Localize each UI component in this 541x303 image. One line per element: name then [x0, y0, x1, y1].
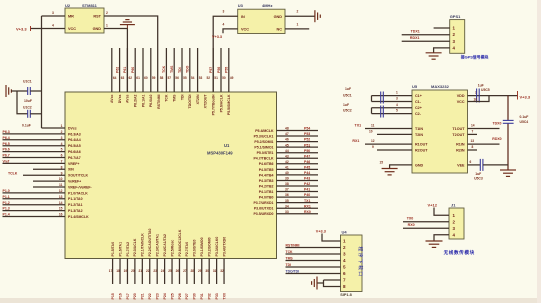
svg-text:5: 5 [396, 109, 398, 113]
svg-text:40: 40 [285, 171, 289, 175]
svg-text:P3.4/UTXD0: P3.4/UTXD0 [222, 237, 226, 257]
svg-text:XT2OUT: XT2OUT [204, 94, 208, 109]
svg-text:RX0: RX0 [408, 223, 415, 227]
svg-text:4: 4 [396, 103, 398, 107]
svg-text:34: 34 [285, 204, 289, 208]
svg-text:33: 33 [285, 210, 289, 214]
svg-text:P2.7/TA0: P2.7/TA0 [185, 242, 189, 257]
U5 pin 1 (C1+) wire [372, 95, 413, 97]
svg-text:P42: P42 [304, 182, 310, 186]
svg-text:R2IN: R2IN [456, 148, 465, 152]
svg-text:RX1: RX1 [304, 204, 311, 208]
svg-text:U5C5: U5C5 [481, 88, 490, 92]
svg-text:R2OUT: R2OUT [415, 148, 428, 152]
svg-text:P45: P45 [304, 165, 310, 169]
svg-text:11: 11 [371, 124, 375, 128]
svg-text:P3.1/SIMO0: P3.1/SIMO0 [200, 237, 204, 256]
svg-text:5: 5 [343, 265, 346, 270]
net TX1 wire to U5 T1IN [365, 128, 412, 130]
svg-text:2: 2 [297, 10, 299, 14]
svg-text:U1C2: U1C2 [23, 106, 32, 110]
svg-text:RST/NMI: RST/NMI [157, 94, 161, 108]
svg-text:P5.0/STE1: P5.0/STE1 [257, 151, 274, 155]
svg-text:DVcc: DVcc [68, 126, 77, 130]
svg-text:47: 47 [285, 132, 289, 136]
U5 pin 2 (VDD) wire to V+3.3 [468, 95, 518, 97]
svg-text:P1.1/TA0: P1.1/TA0 [68, 197, 83, 201]
svg-text:P1.4: P1.4 [3, 213, 10, 217]
svg-text:4: 4 [223, 22, 225, 26]
U3 pin 2 (GND) wire [285, 15, 315, 17]
svg-text:49: 49 [230, 76, 234, 80]
svg-text:P43: P43 [304, 177, 310, 181]
wire ground to cap U1C1 [11, 90, 27, 92]
svg-text:P2.0/ACLK: P2.0/ACLK [133, 238, 137, 256]
svg-text:P6.5: P6.5 [3, 142, 10, 146]
svg-text:P6.5/A5: P6.5/A5 [68, 144, 81, 148]
svg-text:RDX0: RDX0 [492, 137, 501, 141]
U5 pin 6 (VEE) wire [468, 164, 481, 166]
svg-text:6: 6 [61, 154, 63, 158]
GPS1 pin 1 wire [434, 27, 450, 29]
svg-text:RDX1: RDX1 [410, 36, 420, 40]
svg-text:TDX1: TDX1 [411, 30, 420, 34]
svg-text:61: 61 [136, 76, 140, 80]
ground above U2 GND wire [120, 20, 135, 25]
svg-text:C1+: C1+ [415, 94, 422, 98]
svg-text:62: 62 [129, 76, 133, 80]
svg-text:42: 42 [285, 160, 289, 164]
svg-text:9: 9 [61, 171, 63, 175]
svg-text:16: 16 [59, 213, 63, 217]
svg-text:P50: P50 [304, 149, 310, 153]
U4 pin 1 wire [322, 234, 341, 242]
svg-text:1uF: 1uF [478, 83, 484, 87]
svg-text:C2-: C2- [415, 112, 422, 116]
svg-text:27: 27 [183, 269, 187, 273]
J1 pin 1 wire [434, 208, 449, 216]
connector U4 (JTAG download) [341, 235, 363, 292]
svg-text:TX0: TX0 [222, 293, 226, 299]
svg-text:16: 16 [474, 97, 478, 101]
svg-text:44: 44 [285, 149, 289, 153]
U2 pin 1 (GND) wire [104, 29, 127, 93]
ground below U5 GND [382, 169, 398, 175]
svg-text:15: 15 [380, 160, 384, 164]
connector J1 (wireless) [449, 208, 464, 239]
svg-text:63: 63 [121, 76, 125, 80]
svg-text:4MHz: 4MHz [262, 3, 272, 8]
capacitor U1C2 0.1uF [28, 110, 31, 118]
svg-text:TDO/TDI: TDO/TDI [188, 94, 192, 108]
svg-text:7: 7 [61, 160, 63, 164]
svg-text:7: 7 [343, 278, 346, 283]
svg-text:23: 23 [153, 269, 157, 273]
bracket C1+ to C1- [371, 96, 373, 102]
wire down to cap U1C2 [17, 91, 28, 114]
svg-text:V+3.3: V+3.3 [212, 35, 222, 39]
svg-text:25: 25 [168, 269, 172, 273]
svg-text:60: 60 [144, 76, 148, 80]
svg-text:4: 4 [343, 258, 346, 263]
svg-text:P1.3/TA2: P1.3/TA2 [68, 209, 83, 213]
microcontroller U1 MSP430F149 [65, 92, 277, 259]
svg-text:P2.1/TAINCLK: P2.1/TAINCLK [141, 233, 145, 257]
J1 pin 4 wire [434, 235, 449, 241]
svg-text:P3.5/URXD0: P3.5/URXD0 [253, 212, 273, 216]
svg-text:8: 8 [472, 145, 474, 149]
svg-text:P25: P25 [170, 293, 174, 299]
U5 pin 9 (R2OUT) stub [377, 149, 412, 151]
capacitor U5C2 1uF plates [381, 106, 384, 118]
svg-text:C1-: C1- [415, 100, 422, 104]
U2 pin 2 (RST) wire to U1 RST/NMI [104, 16, 158, 92]
svg-text:0.1uF: 0.1uF [22, 124, 31, 128]
power V+3.3 right [517, 91, 519, 100]
svg-text:P6.6: P6.6 [3, 148, 10, 152]
svg-text:P16: P16 [118, 293, 122, 299]
ground right of U3 [315, 10, 320, 22]
svg-text:26: 26 [176, 269, 180, 273]
svg-text:U3: U3 [238, 3, 244, 8]
svg-text:TDX0: TDX0 [493, 122, 502, 126]
svg-text:59: 59 [152, 76, 156, 80]
svg-text:6: 6 [470, 160, 472, 164]
svg-text:P6.0/A0: P6.0/A0 [149, 94, 153, 107]
net TX0 wire to J1 pin 2 [403, 221, 449, 223]
svg-text:V+3.3: V+3.3 [316, 229, 326, 233]
svg-text:P6.3: P6.3 [3, 130, 10, 134]
svg-text:51: 51 [214, 76, 218, 80]
svg-text:TMS: TMS [286, 256, 294, 260]
net RST/NMI wire to U4 pin 2 [286, 247, 341, 249]
svg-text:4: 4 [52, 24, 54, 28]
U5 pin 13 (R1IN) wire net RDX0 [468, 143, 500, 145]
svg-text:TX1: TX1 [304, 199, 310, 203]
svg-text:P4.7/TBCLK: P4.7/TBCLK [253, 157, 274, 161]
svg-text:GND: GND [415, 163, 424, 167]
svg-text:P32: P32 [207, 293, 211, 299]
svg-text:45: 45 [285, 143, 289, 147]
svg-text:U4: U4 [342, 229, 348, 234]
net TDI wire to U4 pin 5 [286, 266, 341, 268]
svg-text:U5C2: U5C2 [343, 108, 352, 112]
svg-text:P20: P20 [133, 293, 137, 299]
svg-text:P1.0/TACLK: P1.0/TACLK [68, 191, 88, 195]
svg-text:R1IN: R1IN [456, 143, 465, 147]
V+3.3 rail to DVcc [41, 16, 43, 128]
svg-text:MR: MR [68, 15, 74, 19]
svg-text:AVss: AVss [126, 94, 130, 103]
U5 pin 3 (C1-) wire [372, 101, 413, 103]
svg-text:P23: P23 [155, 293, 159, 299]
svg-text:P1.2/TA1: P1.2/TA1 [68, 203, 83, 207]
svg-text:9: 9 [372, 145, 374, 149]
svg-text:P1.2: P1.2 [3, 201, 10, 205]
svg-text:3: 3 [52, 11, 54, 15]
svg-text:V+3.3: V+3.3 [16, 26, 27, 31]
svg-text:Vref: Vref [3, 160, 10, 164]
svg-text:U2: U2 [65, 3, 71, 8]
svg-text:U1: U1 [224, 143, 230, 148]
GPS1 pin 4 wire [434, 48, 450, 53]
svg-text:P5.4/MCLK: P5.4/MCLK [255, 129, 274, 133]
svg-text:GPS1: GPS1 [450, 14, 461, 19]
svg-text:P52: P52 [304, 138, 310, 142]
net TDO/TDI wire to U4 pin 6 [286, 273, 341, 275]
svg-text:P3.2/SOMI0: P3.2/SOMI0 [207, 237, 211, 256]
svg-text:30: 30 [205, 269, 209, 273]
svg-text:35: 35 [285, 199, 289, 203]
svg-text:P3.6/UTXD1: P3.6/UTXD1 [254, 207, 274, 211]
svg-text:58: 58 [160, 76, 164, 80]
svg-text:P6.6/A6: P6.6/A6 [68, 150, 81, 154]
svg-text:3: 3 [223, 10, 225, 14]
svg-text:P4.4/TB4: P4.4/TB4 [259, 173, 274, 177]
connector GPS1 [450, 20, 465, 54]
svg-text:P33: P33 [215, 293, 219, 299]
svg-text:C2+: C2+ [415, 106, 422, 110]
svg-text:V+12: V+12 [428, 203, 438, 208]
svg-text:IN: IN [241, 15, 245, 19]
svg-text:21: 21 [139, 269, 143, 273]
svg-text:32: 32 [220, 269, 224, 273]
U4 pin 7 wire [324, 279, 341, 281]
svg-text:TX1: TX1 [355, 124, 362, 128]
svg-text:P27: P27 [185, 293, 189, 299]
svg-text:1: 1 [297, 22, 299, 26]
svg-text:AVcc: AVcc [110, 94, 114, 103]
svg-text:TMS: TMS [173, 94, 177, 102]
net RX1 wire to U5 R1OUT [365, 143, 412, 145]
svg-text:P4.1/TB1: P4.1/TB1 [259, 190, 274, 194]
U5 pin 5 (C2-) wire [372, 113, 413, 115]
svg-text:P6.1/A1: P6.1/A1 [141, 94, 145, 107]
net TMS wire to U4 pin 4 [286, 260, 341, 262]
svg-text:P6.2/A2: P6.2/A2 [134, 94, 138, 107]
wire cap U5C3 to rail [483, 164, 508, 166]
svg-text:P1.4/SMCLK: P1.4/SMCLK [68, 215, 89, 219]
svg-text:RST/NMI: RST/NMI [286, 243, 300, 247]
svg-text:P46: P46 [304, 160, 310, 164]
svg-text:1: 1 [61, 124, 63, 128]
svg-text:U5C1: U5C1 [343, 93, 352, 97]
svg-text:P4.2/TB2: P4.2/TB2 [259, 184, 274, 188]
svg-text:12: 12 [371, 139, 375, 143]
svg-text:P3.3/UCLK0: P3.3/UCLK0 [215, 237, 219, 257]
svg-text:1uF: 1uF [345, 87, 351, 91]
svg-text:P1.1: P1.1 [3, 195, 10, 199]
svg-text:56: 56 [175, 76, 179, 80]
svg-text:T1OUT: T1OUT [452, 127, 465, 131]
svg-text:P6.4/A4: P6.4/A4 [68, 138, 81, 142]
svg-text:P62: P62 [115, 67, 119, 73]
svg-text:36: 36 [285, 193, 289, 197]
svg-text:3: 3 [343, 252, 346, 257]
wire cap U1C1 to V3.3 rail [30, 90, 41, 92]
svg-text:39: 39 [285, 177, 289, 181]
svg-text:8: 8 [61, 165, 63, 169]
svg-text:P61: P61 [123, 67, 127, 73]
svg-text:MSP430F149: MSP430F149 [207, 151, 233, 156]
svg-text:T1IN: T1IN [415, 127, 423, 131]
svg-text:TMS: TMS [170, 65, 174, 73]
svg-text:T2OUT: T2OUT [452, 133, 465, 137]
svg-text:P5.3/UCLK1: P5.3/UCLK1 [254, 134, 274, 138]
capacitor U1C1 10uF [28, 87, 31, 95]
svg-text:17: 17 [109, 269, 113, 273]
net RDX1 wire to GPS1 pin 3 [402, 40, 450, 42]
svg-text:VCC: VCC [68, 27, 76, 31]
svg-text:14: 14 [471, 124, 475, 128]
svg-text:J1: J1 [451, 202, 456, 207]
svg-text:2: 2 [61, 130, 63, 134]
svg-text:P41: P41 [304, 188, 310, 192]
svg-text:22: 22 [146, 269, 150, 273]
svg-text:VEE: VEE [457, 163, 465, 167]
svg-text:VREF+: VREF+ [68, 162, 79, 166]
U4 pin 8 wire [324, 280, 341, 287]
svg-text:3: 3 [396, 97, 398, 101]
svg-text:20: 20 [131, 269, 135, 273]
svg-text:P53: P53 [304, 132, 310, 136]
svg-text:XIN: XIN [68, 168, 74, 172]
svg-text:43: 43 [285, 154, 289, 158]
transceiver U5 MAX3232 [412, 90, 468, 173]
svg-text:P31: P31 [200, 293, 204, 299]
U5 pin 16 (VCC) wire [468, 96, 490, 102]
svg-text:P30: P30 [193, 293, 197, 299]
net TDX1 wire to GPS1 pin 2 [402, 34, 450, 36]
svg-text:57: 57 [168, 76, 172, 80]
svg-text:5: 5 [61, 148, 63, 152]
svg-text:TCK: TCK [286, 250, 294, 254]
svg-text:RX0: RX0 [304, 210, 311, 214]
svg-text:37: 37 [285, 188, 289, 192]
svg-text:15: 15 [59, 207, 63, 211]
svg-text:U5: U5 [412, 84, 418, 89]
svg-text:TX0: TX0 [407, 217, 414, 221]
svg-text:31: 31 [213, 269, 217, 273]
svg-text:10: 10 [59, 177, 63, 181]
ground below J1 [426, 241, 443, 247]
svg-text:2: 2 [106, 11, 108, 15]
supervisor U2 STM811 [65, 8, 104, 33]
svg-text:P1.0: P1.0 [3, 189, 10, 193]
svg-text:P6.7: P6.7 [3, 154, 10, 158]
svg-text:U1C1: U1C1 [23, 80, 32, 84]
bracket C2+ to C2- [371, 108, 373, 114]
net RX0 wire to J1 pin 3 [403, 227, 449, 229]
svg-text:P22: P22 [148, 293, 152, 299]
svg-text:V+3.3: V+3.3 [520, 94, 531, 99]
U2 pin 4 (VCC) wire [31, 28, 66, 30]
svg-text:13: 13 [471, 139, 475, 143]
svg-text:NC: NC [277, 27, 283, 31]
svg-text:TDI: TDI [180, 94, 184, 100]
capacitor U5C4 0.1uF plates [503, 120, 514, 123]
svg-text:TCLK: TCLK [8, 171, 18, 175]
svg-text:P15: P15 [111, 293, 115, 299]
svg-text:3: 3 [61, 136, 63, 140]
svg-text:P1.5/TA0: P1.5/TA0 [111, 242, 115, 257]
svg-text:P4.0/TB0: P4.0/TB0 [259, 196, 274, 200]
wire to ground [317, 282, 324, 284]
svg-text:TCK: TCK [162, 65, 166, 73]
U5 pin 10 (T2IN) stub [377, 133, 412, 135]
svg-text:48: 48 [285, 127, 289, 131]
svg-text:4: 4 [61, 142, 63, 146]
svg-text:接GPS信号模块: 接GPS信号模块 [460, 55, 489, 60]
svg-text:28: 28 [191, 269, 195, 273]
svg-text:P2.2/CAOUT/TA0: P2.2/CAOUT/TA0 [148, 229, 152, 257]
svg-text:P47: P47 [304, 154, 310, 158]
U2 pin 3 (MR) wire [42, 15, 66, 17]
svg-text:P4.5/TB5: P4.5/TB5 [259, 168, 274, 172]
U3 pin 3 (IN) wire to U1 XT2IN [213, 16, 238, 92]
svg-text:VREF-/VeREF-: VREF-/VeREF- [68, 185, 93, 189]
svg-text:P5.5/SMCLK: P5.5/SMCLK [227, 94, 231, 115]
svg-text:STM811: STM811 [82, 3, 98, 8]
svg-text:GND: GND [93, 27, 102, 31]
svg-text:53: 53 [199, 76, 203, 80]
svg-text:RST: RST [93, 15, 101, 19]
svg-text:P5.7/TBoutH: P5.7/TBoutH [212, 94, 216, 115]
svg-text:T2IN: T2IN [415, 133, 423, 137]
svg-text:P21: P21 [141, 293, 145, 299]
svg-text:P6.3/A3: P6.3/A3 [68, 132, 81, 136]
svg-text:P44: P44 [304, 171, 310, 175]
svg-text:SIP1.8: SIP1.8 [340, 293, 351, 297]
svg-text:1uF: 1uF [343, 103, 349, 107]
svg-text:14: 14 [59, 201, 63, 205]
U3 pin 4 (VCC) wire [223, 29, 238, 33]
svg-text:P26: P26 [178, 293, 182, 299]
svg-text:程序下载口: 程序下载口 [357, 247, 364, 278]
svg-text:29: 29 [198, 269, 202, 273]
svg-text:XOUT/TCLK: XOUT/TCLK [68, 174, 88, 178]
svg-text:46: 46 [285, 138, 289, 142]
svg-text:1: 1 [396, 91, 398, 95]
svg-text:52: 52 [207, 76, 211, 80]
capacitor U5C1 1uF plates [381, 92, 384, 104]
U5 pin 4 (C2+) wire [372, 107, 413, 109]
ground below GPS1 pin 4 [426, 53, 442, 59]
svg-text:P56: P56 [217, 67, 221, 73]
oscillator U3 4MHz [238, 9, 285, 33]
svg-text:P6.7/A7: P6.7/A7 [68, 156, 81, 160]
svg-text:P4.6/TB6: P4.6/TB6 [259, 162, 274, 166]
svg-text:P2.5/Rosc: P2.5/Rosc [170, 240, 174, 257]
svg-text:P24: P24 [163, 293, 167, 299]
svg-text:无线数传模块: 无线数传模块 [443, 249, 475, 256]
svg-text:U5C3: U5C3 [474, 177, 483, 181]
svg-text:1: 1 [343, 239, 346, 244]
U5 pin 7 (T2OUT) stub [468, 133, 478, 135]
rail V+3.3 down to ground [507, 96, 509, 121]
svg-text:1uF: 1uF [475, 172, 481, 176]
net TCK wire to U4 pin 3 [286, 253, 341, 255]
svg-text:P2.4/CA1/TA2: P2.4/CA1/TA2 [163, 234, 167, 257]
svg-text:P2.3/CA0/TA1: P2.3/CA0/TA1 [155, 234, 159, 257]
svg-text:12: 12 [59, 189, 63, 193]
svg-text:55: 55 [183, 76, 187, 80]
svg-text:10uF: 10uF [24, 99, 32, 103]
U5 pin 15 (GND) wire [390, 165, 412, 169]
ground bottom right [500, 170, 516, 176]
svg-text:RX1: RX1 [352, 139, 359, 143]
svg-text:GND: GND [274, 15, 283, 19]
